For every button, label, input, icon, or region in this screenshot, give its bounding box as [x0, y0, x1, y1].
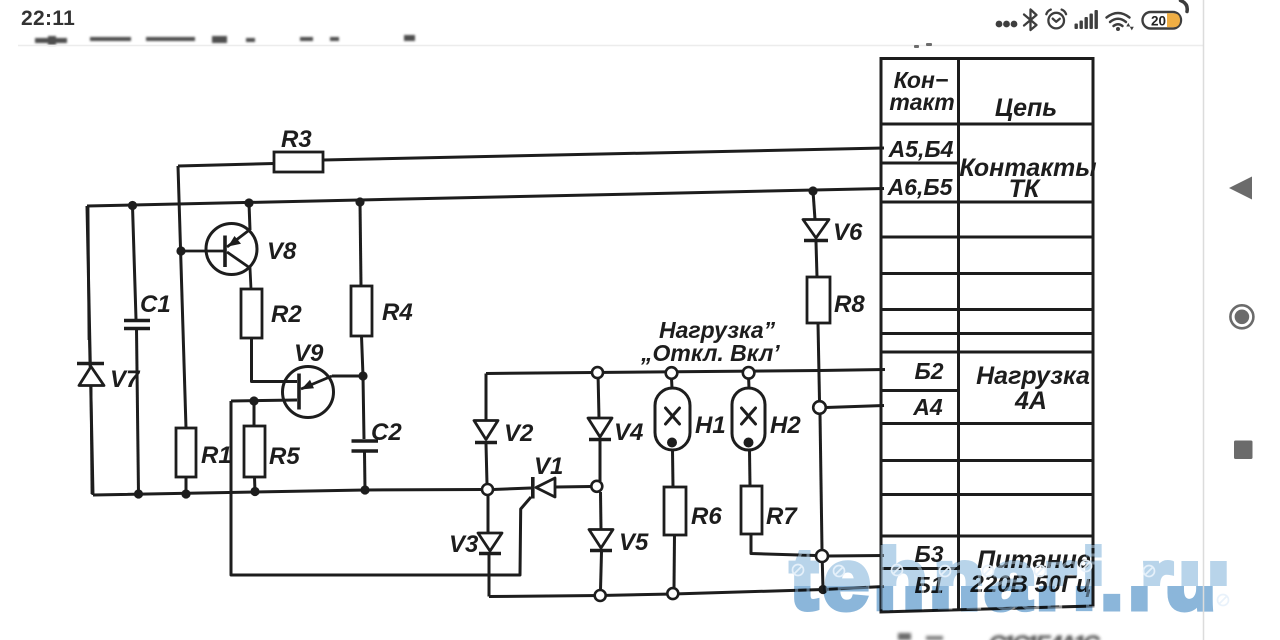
svg-text:Цепь: Цепь	[995, 94, 1057, 122]
svg-text:V8: V8	[267, 238, 297, 265]
svg-text:4А: 4А	[1014, 387, 1047, 415]
svg-text:V9: V9	[294, 340, 324, 367]
svg-text:V2: V2	[504, 420, 534, 447]
svg-text:H1: H1	[695, 412, 726, 439]
svg-text:R2: R2	[271, 301, 302, 328]
svg-text:H2: H2	[770, 412, 801, 439]
svg-text:ТК: ТК	[1009, 175, 1041, 203]
svg-text:А4: А4	[912, 394, 943, 420]
svg-text:20: 20	[1151, 14, 1166, 29]
svg-text:R7: R7	[766, 503, 798, 530]
svg-text:Нагрузка: Нагрузка	[976, 362, 1090, 390]
svg-text:R6: R6	[691, 503, 722, 530]
svg-text:C2: C2	[371, 419, 402, 446]
svg-text:V1: V1	[534, 453, 563, 480]
svg-text:А5,Б4: А5,Б4	[888, 136, 954, 162]
svg-text:V6: V6	[833, 219, 863, 246]
svg-text:такт: такт	[889, 89, 954, 115]
svg-text:Б2: Б2	[914, 358, 943, 384]
svg-text:R3: R3	[281, 126, 312, 153]
svg-text:V3: V3	[449, 531, 479, 558]
svg-text:V4: V4	[614, 419, 643, 446]
svg-text:V7: V7	[110, 366, 141, 393]
svg-text:R1: R1	[201, 442, 232, 469]
svg-text:А6,Б5: А6,Б5	[887, 174, 954, 200]
svg-text:R5: R5	[269, 443, 300, 470]
svg-text:C1: C1	[140, 291, 171, 318]
svg-text:С1С1Г 4А1С: С1С1Г 4А1С	[988, 631, 1101, 640]
svg-text:R4: R4	[382, 299, 413, 326]
svg-text:R8: R8	[834, 291, 865, 318]
svg-text:V5: V5	[619, 529, 649, 556]
svg-text:„Откл. Вкл’: „Откл. Вкл’	[640, 340, 780, 366]
